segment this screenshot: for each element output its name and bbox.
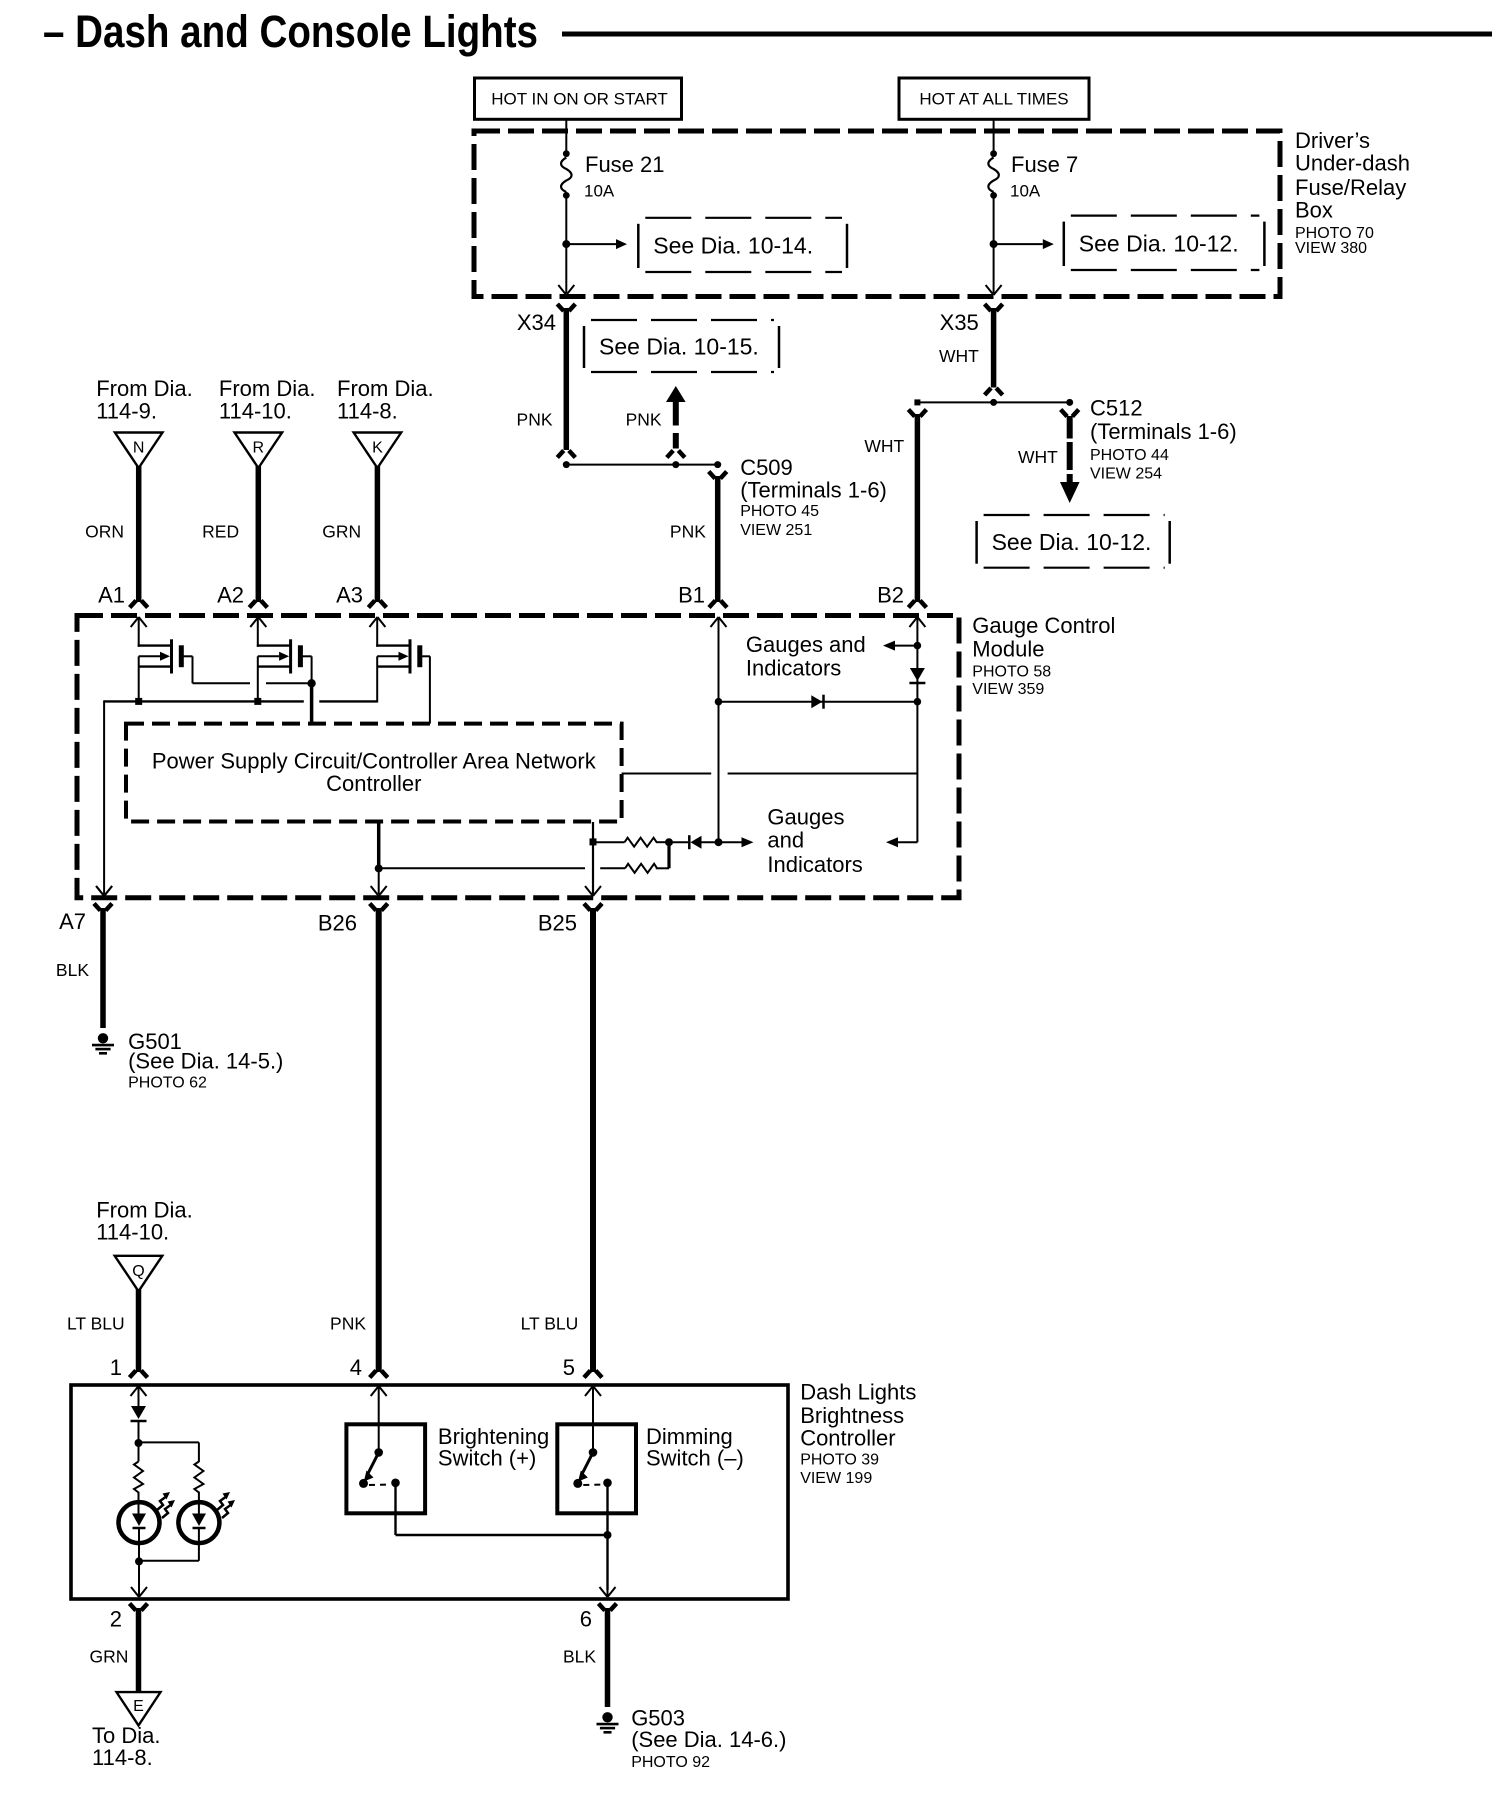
pin 4 arrow (371, 1386, 379, 1396)
svg-text:B25: B25 (538, 910, 577, 935)
wire: HOT IN ON OR START to fuse box (565, 119, 567, 131)
label box: HOT IN ON OR START (475, 78, 682, 119)
svg-text:BLK: BLK (56, 960, 89, 980)
resistor R4 (194, 1462, 203, 1493)
svg-text:From Dia.: From Dia. (337, 376, 434, 401)
svg-text:PNK: PNK (626, 410, 662, 430)
svg-text:(Terminals 1-6): (Terminals 1-6) (740, 477, 887, 502)
transistor Q1 gate lead (181, 655, 192, 657)
svg-text:(See Dia. 14-5.): (See Dia. 14-5.) (128, 1049, 283, 1074)
arrow up to See Dia. 10-15. (PNK) (666, 386, 686, 402)
svg-text:Q: Q (132, 1263, 144, 1280)
box: Brightening Switch (346, 1424, 425, 1513)
svg-text:PHOTO 58: PHOTO 58 (972, 664, 1051, 681)
wire: fuse 7 to X35 (993, 195, 995, 293)
svg-text:ORN: ORN (85, 522, 124, 542)
label box: HOT AT ALL TIMES (899, 78, 1089, 119)
lamp L1 rays (157, 1496, 167, 1510)
svg-text:A3: A3 (336, 583, 363, 608)
svg-text:LT BLU: LT BLU (67, 1314, 125, 1334)
svg-text:A7: A7 (59, 909, 86, 934)
arrow at B25 pin (inside) (585, 886, 593, 896)
arrow at pin 2 (inside) (131, 1587, 139, 1597)
svg-text:B2: B2 (877, 583, 904, 608)
box: Dimming Switch (557, 1424, 636, 1513)
title rule (562, 32, 1492, 37)
svg-text:R: R (253, 440, 265, 457)
transistor Q3 (A3 driver) (376, 617, 378, 647)
svg-text:and: and (767, 828, 804, 853)
node on B2 wire at diode row (914, 698, 922, 706)
arrow down to See Dia. 10-12. (WHT) (1067, 416, 1073, 439)
junction on fuse 21 wire (562, 240, 570, 248)
svg-text:A1: A1 (98, 583, 125, 608)
svg-text:Controller: Controller (800, 1425, 895, 1450)
svg-text:BLK: BLK (563, 1647, 596, 1667)
wire X35 WHT (991, 308, 997, 388)
svg-text:VIEW 199: VIEW 199 (800, 1470, 872, 1487)
svg-text:5: 5 (563, 1355, 575, 1380)
svg-text:(Terminals 1-6): (Terminals 1-6) (1090, 419, 1237, 444)
svg-text:VIEW 251: VIEW 251 (740, 522, 812, 539)
lamp L2 (198, 1492, 200, 1514)
node: X35 junction (990, 399, 997, 406)
svg-text:From Dia.: From Dia. (219, 376, 316, 401)
arrow at B26 pin (inside) (371, 886, 379, 896)
svg-text:114-8.: 114-8. (92, 1745, 153, 1770)
connector triangle K (354, 433, 402, 469)
svg-text:E: E (133, 1698, 144, 1715)
svg-text:Brightness: Brightness (800, 1403, 904, 1428)
svg-text:Fuse 21: Fuse 21 (585, 152, 665, 177)
svg-text:See Dia. 10-12.: See Dia. 10-12. (992, 529, 1152, 555)
svg-text:PHOTO 45: PHOTO 45 (740, 503, 819, 520)
arrow into fuse box bottom edge at X35 (986, 285, 994, 295)
reference box: See Dia. 10-14. (637, 224, 640, 268)
transistor Q2 (A2 driver) (257, 617, 259, 647)
svg-text:Dash Lights: Dash Lights (800, 1380, 916, 1405)
svg-text:GRN: GRN (322, 522, 361, 542)
wire K to A3 GRN (375, 466, 381, 602)
wire: fuse 21 to X34 (565, 195, 567, 293)
wire B2 branch WHT (908, 410, 914, 417)
junction on fuse 7 wire (990, 240, 998, 248)
connector triangle N (115, 433, 163, 469)
svg-text:PNK: PNK (670, 522, 706, 542)
pin B26 (370, 904, 376, 911)
arrow at pin 6 (inside) (600, 1587, 608, 1597)
connector triangle Q (115, 1256, 163, 1292)
svg-text:Under-dash: Under-dash (1295, 151, 1410, 176)
wire B25 to pin 5 LT BLU (590, 908, 596, 1372)
svg-text:Switch (+): Switch (+) (438, 1446, 536, 1471)
arrow to See Dia. 10-12. (994, 243, 1043, 245)
wire: PSC to B2 net (622, 773, 712, 775)
dashed box: Driver's Under-dash Fuse/Relay Box (474, 131, 1280, 297)
svg-text:A2: A2 (217, 583, 244, 608)
svg-text:X35: X35 (940, 310, 979, 335)
svg-text:HOT IN ON OR START: HOT IN ON OR START (491, 90, 668, 109)
wire: HOT AT ALL TIMES to fuse box (993, 119, 995, 131)
reference box: See Dia. 10-15. (583, 326, 586, 368)
pin A2 arrow (250, 617, 258, 627)
node after R1 (665, 838, 673, 846)
svg-text:(See Dia. 14-6.): (See Dia. 14-6.) (631, 1727, 786, 1752)
connector triangle R (235, 433, 283, 469)
svg-text:114-10.: 114-10. (219, 398, 292, 423)
svg-text:Gauges: Gauges (767, 804, 844, 829)
svg-text:PHOTO 92: PHOTO 92 (631, 1754, 710, 1771)
svg-text:PHOTO 44: PHOTO 44 (1090, 447, 1169, 464)
svg-text:Indicators: Indicators (746, 656, 841, 681)
connector C509 (714, 461, 721, 468)
pin 2 (130, 1604, 136, 1611)
arrow into fuse box bottom edge at X34 (558, 285, 566, 295)
svg-text:K: K (372, 440, 383, 457)
wire: source bus (104, 700, 304, 702)
svg-text:Controller: Controller (326, 771, 421, 796)
pin B25 (584, 904, 590, 911)
svg-text:See Dia. 10-14.: See Dia. 10-14. (653, 232, 813, 258)
pin B2 arrow (909, 617, 917, 627)
ground G503 (602, 1712, 612, 1722)
node B1 lower (715, 838, 723, 846)
svg-text:114-10.: 114-10. (96, 1220, 169, 1245)
pin A7 (96, 886, 104, 896)
arrow to Gauges and Indicators (upper) (895, 645, 917, 647)
node: bus junction A1 (135, 698, 142, 705)
arrow at A7 pin (inside) (96, 886, 104, 896)
wire B25 from PSC (592, 822, 594, 894)
reference box: See Dia. 10-12. (1063, 222, 1066, 266)
fuse F7 (Fuse 7 10A) (993, 131, 995, 154)
svg-text:Module: Module (972, 637, 1044, 662)
wire R to A2 RED (256, 466, 262, 602)
wire Q to pin 1 LT BLU (136, 1289, 142, 1372)
node on B2 wire upper (914, 642, 922, 650)
svg-text:114-9.: 114-9. (96, 398, 157, 423)
svg-text:PHOTO 62: PHOTO 62 (128, 1074, 207, 1091)
diode D1 row B1-B2 (719, 701, 918, 703)
svg-text:GRN: GRN (90, 1647, 129, 1667)
reference box: See Dia. 10-12. (lower) (975, 521, 978, 564)
wire: S1 output (394, 1483, 396, 1535)
svg-text:– Dash and Console Lights: – Dash and Console Lights (43, 6, 538, 57)
fuse F21 (Fuse 21 10A) (565, 131, 567, 154)
svg-text:VIEW 359: VIEW 359 (972, 681, 1044, 698)
pin B1 arrow (711, 617, 719, 627)
svg-text:114-8.: 114-8. (337, 398, 398, 423)
box: Dash Lights Brightness Controller (71, 1385, 788, 1599)
svg-text:PNK: PNK (330, 1314, 366, 1334)
transistor Q3 gate lead (418, 655, 430, 657)
node: lamp branch (135, 1439, 143, 1447)
wire: branch to lamp 2 (139, 1441, 199, 1443)
pin 4 (370, 1371, 376, 1378)
pin 6 (599, 1604, 605, 1611)
svg-text:LT BLU: LT BLU (521, 1314, 579, 1334)
pin A1 arrow (131, 617, 139, 627)
svg-text:PNK: PNK (517, 410, 553, 430)
wire: junction row to C509 (566, 464, 717, 466)
pin 5 (584, 1371, 590, 1378)
diode D3 (to B1 net) (669, 841, 688, 843)
pin A3 arrow (369, 617, 377, 627)
wire pin6 BLK to G503 (605, 1608, 611, 1707)
svg-text:WHT: WHT (939, 346, 979, 366)
svg-text:N: N (133, 440, 145, 457)
svg-text:Gauges and: Gauges and (746, 632, 866, 657)
resistor R2 row (379, 867, 585, 869)
svg-text:6: 6 (580, 1606, 592, 1631)
svg-text:Driver’s: Driver’s (1295, 128, 1370, 153)
lamp L2 rays (217, 1496, 227, 1510)
svg-text:2: 2 (110, 1606, 122, 1631)
wire B1 internal (718, 617, 720, 842)
wire C509 to B1 PNK (715, 476, 721, 602)
connector C512 (1066, 399, 1073, 406)
wire pin2 GRN (136, 1608, 142, 1692)
connector triangle E (to dia 114-8) (117, 1692, 161, 1725)
lamp L1 (138, 1492, 140, 1514)
svg-text:Fuse 7: Fuse 7 (1011, 152, 1078, 177)
node: gate junction (307, 679, 315, 687)
pin 1 arrow (131, 1386, 139, 1396)
wire B26 from PSC (377, 822, 381, 869)
svg-text:10A: 10A (584, 182, 615, 201)
svg-text:X34: X34 (517, 310, 556, 335)
resistor R3 (134, 1462, 143, 1493)
diode D4 on pin1 wire (138, 1386, 140, 1407)
wire B26 to pin 4 PNK (376, 908, 382, 1372)
svg-text:Gauge Control: Gauge Control (972, 613, 1115, 638)
svg-text:4: 4 (350, 1355, 362, 1380)
wire X34 PNK (564, 308, 570, 450)
wire: junction row X35 (917, 401, 1069, 403)
ground G501 (98, 1033, 108, 1043)
switch S2 (dimming) (592, 1386, 594, 1452)
wire B2 internal (916, 617, 918, 842)
svg-text:Power Supply Circuit/Controlle: Power Supply Circuit/Controller Area Net… (152, 749, 597, 774)
svg-text:RED: RED (202, 522, 239, 542)
svg-text:HOT AT ALL TIMES: HOT AT ALL TIMES (919, 90, 1068, 109)
node: bus junction A2 (254, 698, 261, 705)
svg-text:Switch (–): Switch (–) (646, 1446, 744, 1471)
node on B1 wire (715, 698, 723, 706)
wire: bus to A7 pin (103, 700, 105, 894)
svg-text:C512: C512 (1090, 396, 1143, 421)
node on B26 wire (375, 864, 383, 872)
svg-text:WHT: WHT (1018, 447, 1058, 467)
svg-text:From Dia.: From Dia. (96, 376, 193, 401)
transistor Q1 (A1 driver) (138, 617, 140, 647)
wire: lamps common (138, 1542, 140, 1590)
switch S1 (brightening) (378, 1386, 380, 1452)
pin 1 (130, 1371, 136, 1378)
svg-text:VIEW 380: VIEW 380 (1295, 240, 1367, 257)
arrow to See Dia. 10-14. (566, 243, 616, 245)
node: switches common (604, 1531, 612, 1539)
arrow from B2 to Gauges (lower) (898, 841, 917, 843)
svg-text:PHOTO 39: PHOTO 39 (800, 1451, 879, 1468)
svg-text:See Dia. 10-15.: See Dia. 10-15. (599, 334, 759, 360)
svg-text:Indicators: Indicators (767, 852, 862, 877)
pin 5 arrow (585, 1386, 593, 1396)
svg-text:C509: C509 (740, 455, 793, 480)
node: X34 junction (563, 461, 570, 468)
transistor Q2 gate lead (300, 655, 311, 657)
dashed box: Power Supply Circuit/Controller Area Network Controller (126, 724, 622, 822)
svg-text:Box: Box (1295, 198, 1333, 223)
wire: S2 output to pin 6 (606, 1483, 608, 1590)
diode D2 on B2 wire (910, 668, 925, 681)
dashed box: Gauge Control Module (77, 616, 959, 898)
wire N to A1 ORN (136, 466, 142, 602)
svg-text:10A: 10A (1010, 182, 1041, 201)
wire A7 BLK to G501 (100, 908, 106, 1028)
svg-text:See Dia. 10-12.: See Dia. 10-12. (1079, 230, 1239, 256)
wire: gates into PSC controller (310, 683, 314, 725)
node on B25 wire (590, 838, 597, 845)
svg-text:B26: B26 (318, 910, 357, 935)
svg-text:1: 1 (110, 1355, 122, 1380)
svg-text:WHT: WHT (864, 436, 904, 456)
resistor R1 row (593, 841, 625, 843)
arrow to Gauges and Indicators (lower) (719, 841, 742, 843)
svg-text:B1: B1 (678, 583, 705, 608)
svg-text:VIEW 254: VIEW 254 (1090, 465, 1162, 482)
svg-text:Fuse/Relay: Fuse/Relay (1295, 175, 1406, 200)
